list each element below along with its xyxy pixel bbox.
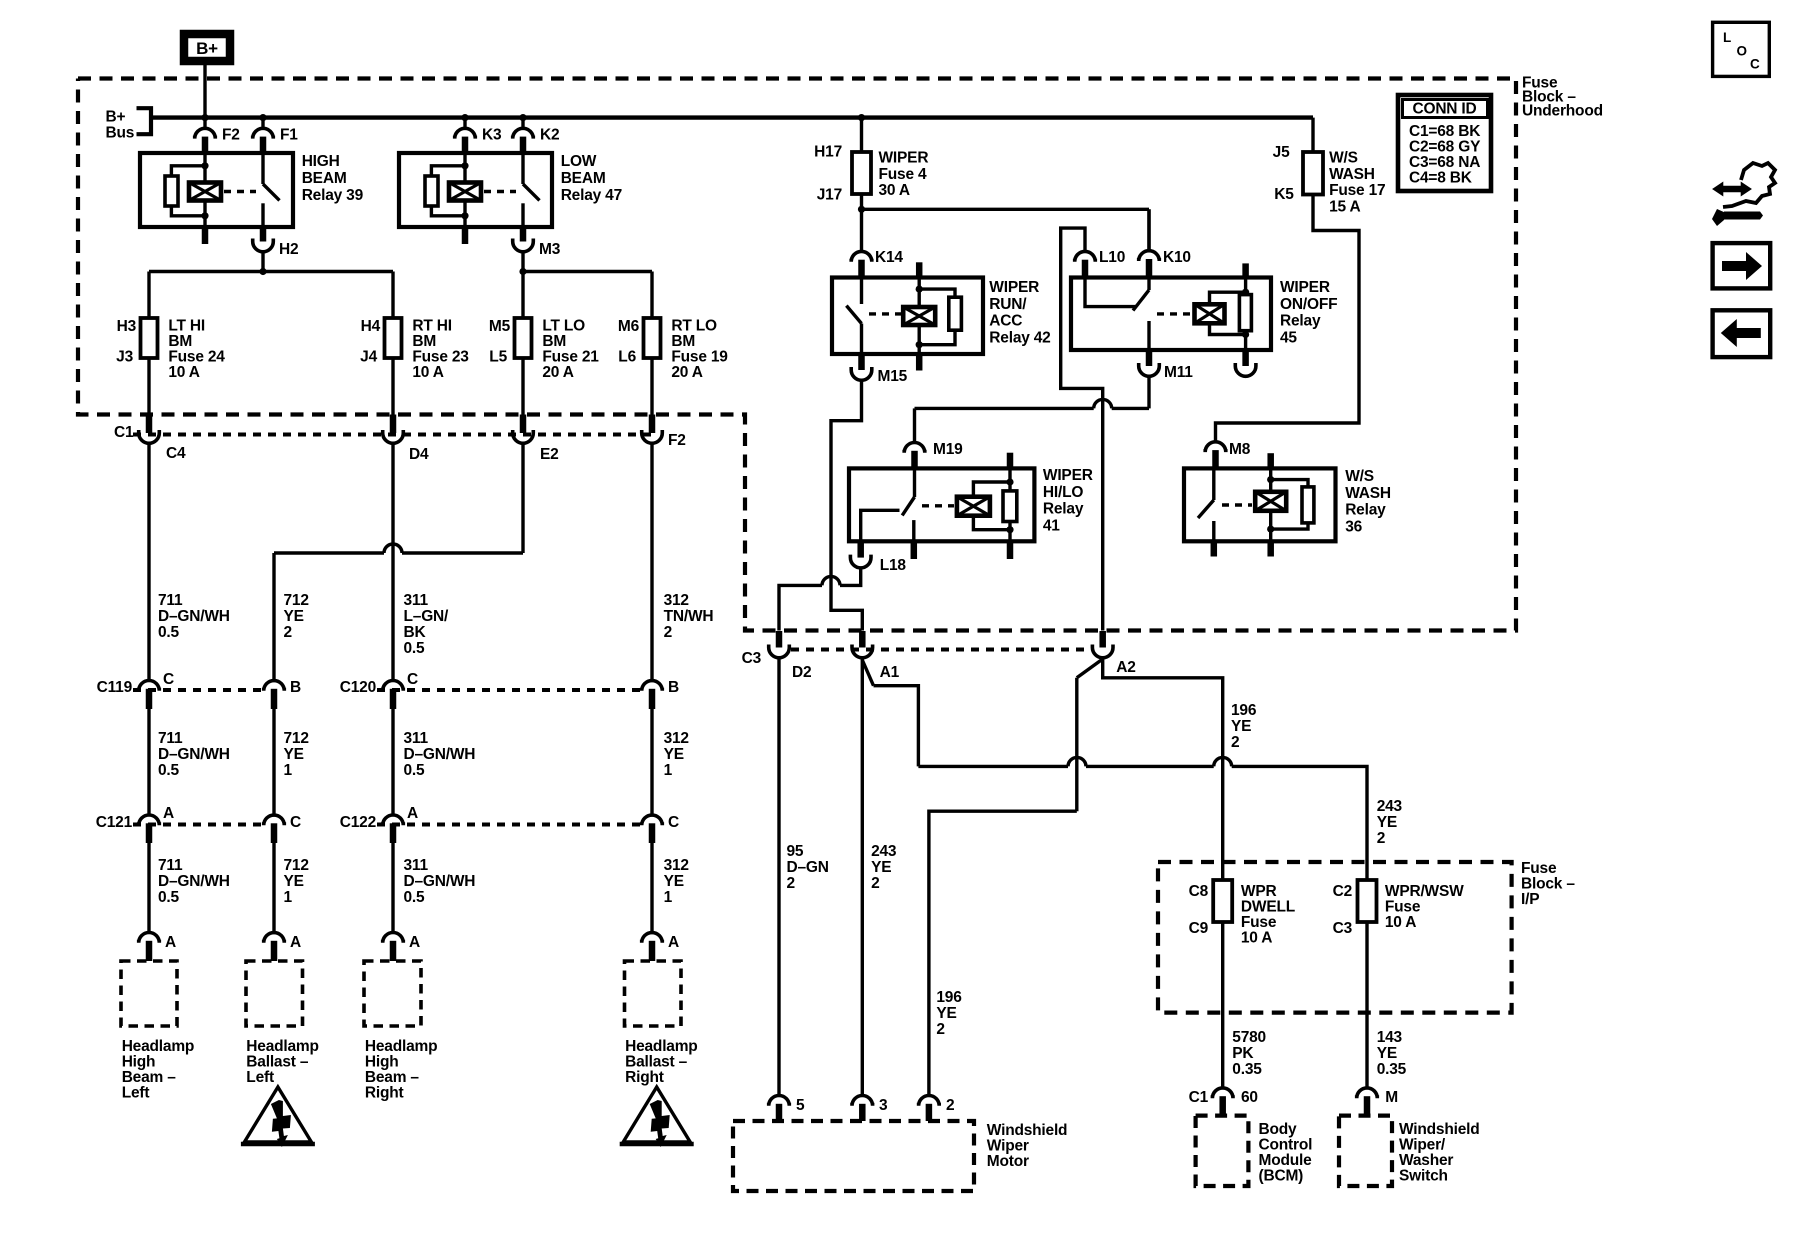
svg-text:Fuse 17: Fuse 17 [1329, 182, 1385, 199]
component Headlamp Ballast - Right [625, 961, 698, 1086]
svg-text:2: 2 [871, 875, 879, 892]
svg-text:HI/LO: HI/LO [1043, 484, 1083, 501]
svg-text:HIGH: HIGH [302, 153, 340, 170]
svg-text:WIPER: WIPER [879, 150, 929, 167]
svg-text:LT HI: LT HI [168, 318, 205, 335]
svg-text:311: 311 [404, 592, 429, 609]
svg-text:Fuse 23: Fuse 23 [412, 349, 469, 366]
fuse block underhood dashed outline [78, 79, 1516, 631]
svg-text:0.5: 0.5 [158, 889, 180, 906]
connector switch pin M [1357, 1088, 1398, 1116]
svg-text:K3: K3 [482, 127, 502, 144]
connector M3 [513, 227, 561, 258]
svg-text:O: O [1737, 44, 1747, 59]
svg-text:Relay: Relay [1345, 502, 1386, 519]
wire A2 to WPR DWELL fuse 196 YE [1103, 658, 1257, 880]
svg-text:C1: C1 [114, 424, 134, 441]
svg-text:Relay 47: Relay 47 [561, 187, 622, 204]
connector M11 [1139, 350, 1194, 381]
wire M3 to fuses Fuse21 Fuse19 [519, 253, 652, 319]
wire L18 to D2 [779, 569, 861, 631]
svg-text:M3: M3 [539, 241, 561, 258]
svg-text:0.35: 0.35 [1232, 1061, 1262, 1078]
svg-text:712: 712 [284, 857, 309, 874]
svg-text:41: 41 [1043, 517, 1060, 534]
svg-text:95: 95 [787, 843, 804, 860]
svg-text:YE: YE [664, 746, 684, 763]
wires fuses to connector C4 [149, 358, 652, 415]
svg-text:B: B [668, 679, 679, 696]
svg-text:DWELL: DWELL [1241, 899, 1295, 916]
svg-text:Fuse 21: Fuse 21 [542, 349, 599, 366]
svg-text:Wiper: Wiper [987, 1138, 1029, 1155]
svg-text:C9: C9 [1189, 920, 1209, 937]
fuse F19 RT LO BM Fuse 19 20A [618, 318, 728, 382]
svg-text:L10: L10 [1099, 249, 1125, 266]
connector pin A headlamp ballast left [264, 933, 301, 961]
svg-text:RUN/: RUN/ [989, 296, 1027, 313]
svg-text:RT LO: RT LO [671, 318, 717, 335]
svg-text:A: A [165, 934, 176, 951]
component Headlamp High Beam - Left [121, 961, 194, 1102]
wire 711 segment 2 [149, 709, 230, 815]
connector C122 [340, 805, 679, 843]
svg-text:C8: C8 [1189, 883, 1209, 900]
svg-text:BEAM: BEAM [302, 170, 347, 187]
svg-text:W/S: W/S [1345, 468, 1374, 485]
svg-text:20 A: 20 A [671, 364, 702, 381]
svg-text:2: 2 [1231, 734, 1239, 751]
svg-text:5780: 5780 [1232, 1029, 1266, 1046]
svg-text:C: C [407, 671, 418, 688]
svg-text:C3: C3 [1333, 920, 1353, 937]
wire A2 branch to wiper motor pin 2 196 YE [929, 659, 1103, 1096]
svg-text:TN/WH: TN/WH [664, 608, 714, 625]
svg-text:Fuse: Fuse [1241, 914, 1277, 931]
svg-text:Beam –: Beam – [122, 1069, 177, 1086]
svg-text:YE: YE [284, 608, 304, 625]
icon arrow left box [1713, 310, 1771, 357]
svg-text:E2: E2 [540, 446, 559, 463]
svg-text:D2: D2 [792, 664, 811, 681]
component Headlamp Ballast - Left [246, 961, 319, 1086]
svg-text:C121: C121 [96, 814, 133, 831]
svg-text:36: 36 [1345, 518, 1362, 535]
fuse F17 W/S WASH Fuse 17 15A [1273, 118, 1386, 216]
svg-text:Right: Right [365, 1085, 404, 1102]
svg-text:C: C [1750, 57, 1760, 72]
connector C3 pin D2 [742, 631, 812, 681]
wire M11 to M19 [915, 377, 1150, 443]
icon arrow right box [1713, 243, 1771, 288]
svg-text:Bus: Bus [106, 125, 135, 142]
svg-text:M8: M8 [1229, 441, 1251, 458]
svg-text:2: 2 [284, 624, 292, 641]
svg-text:H3: H3 [117, 318, 137, 335]
svg-text:L–GN/: L–GN/ [404, 608, 450, 625]
connector L18 [850, 541, 906, 574]
svg-text:Headlamp: Headlamp [122, 1038, 194, 1055]
svg-text:Wiper/: Wiper/ [1399, 1137, 1446, 1154]
wire bus to Fuse4 [860, 118, 863, 152]
wire 711 segment 3 [149, 843, 230, 933]
svg-text:M5: M5 [489, 318, 511, 335]
svg-text:Fuse: Fuse [1385, 899, 1421, 916]
svg-text:ACC: ACC [989, 313, 1022, 330]
svg-text:712: 712 [284, 730, 309, 747]
connector pin A headlamp ballast right [642, 933, 679, 961]
svg-text:D–GN/WH: D–GN/WH [158, 608, 230, 625]
svg-text:C122: C122 [340, 814, 376, 831]
icon LOC box [1713, 22, 1770, 76]
svg-text:YE: YE [284, 746, 304, 763]
wire Fuse4 output node [858, 194, 1149, 251]
svg-text:WPR: WPR [1241, 883, 1277, 900]
connector M19 [904, 441, 963, 468]
svg-text:H17: H17 [814, 144, 842, 161]
svg-text:(BCM): (BCM) [1259, 1168, 1304, 1185]
svg-text:5: 5 [796, 1097, 805, 1114]
svg-text:Ballast –: Ballast – [246, 1054, 309, 1071]
svg-text:W/S: W/S [1329, 150, 1358, 167]
svg-text:ON/OFF: ON/OFF [1280, 296, 1337, 313]
wire B+ bus [151, 115, 1313, 119]
svg-text:M: M [1385, 1089, 1398, 1106]
svg-text:312: 312 [664, 730, 689, 747]
svg-text:711: 711 [158, 730, 183, 747]
svg-text:D–GN: D–GN [787, 859, 829, 876]
svg-text:C4=8 BK: C4=8 BK [1409, 170, 1473, 187]
connector C3 pin A1 [852, 631, 900, 681]
svg-text:D–GN/WH: D–GN/WH [158, 873, 230, 890]
svg-text:1: 1 [284, 762, 293, 779]
svg-text:Headlamp: Headlamp [246, 1038, 318, 1055]
svg-text:BM: BM [671, 333, 695, 350]
svg-text:2: 2 [946, 1097, 954, 1114]
svg-text:YE: YE [1377, 814, 1397, 831]
connector pin A headlamp high beam left [139, 933, 176, 961]
svg-text:BM: BM [168, 333, 192, 350]
fuse block I/P dashed outline [1158, 862, 1512, 1013]
svg-text:D4: D4 [409, 446, 429, 463]
svg-text:Left: Left [122, 1085, 150, 1102]
wire 712 circuit segment 1 [274, 445, 523, 681]
svg-text:C120: C120 [340, 679, 376, 696]
wire B+ to bus [203, 65, 206, 118]
svg-text:Headlamp: Headlamp [625, 1038, 697, 1055]
svg-text:711: 711 [158, 592, 183, 609]
svg-text:712: 712 [284, 592, 309, 609]
svg-text:WPR/WSW: WPR/WSW [1385, 883, 1464, 900]
svg-text:J5: J5 [1273, 144, 1290, 161]
svg-text:K5: K5 [1274, 186, 1294, 203]
svg-text:10 A: 10 A [168, 364, 199, 381]
wire D2 to wiper motor pin 5 [779, 658, 829, 1095]
svg-text:B+: B+ [106, 109, 126, 126]
connector pin A headlamp high beam right [383, 932, 420, 961]
svg-text:C: C [163, 671, 174, 688]
svg-text:H4: H4 [361, 318, 381, 335]
svg-text:10 A: 10 A [1241, 930, 1272, 947]
svg-text:H2: H2 [279, 241, 298, 258]
svg-text:0.5: 0.5 [158, 762, 180, 779]
svg-text:BK: BK [404, 624, 427, 641]
svg-text:Washer: Washer [1399, 1152, 1453, 1169]
svg-text:0.5: 0.5 [158, 624, 180, 641]
svg-text:Fuse 4: Fuse 4 [879, 166, 927, 183]
svg-text:L5: L5 [489, 349, 507, 366]
svg-text:C: C [290, 814, 301, 831]
component Windshield Wiper/Washer Switch [1339, 1116, 1480, 1186]
svg-text:C: C [668, 814, 679, 831]
svg-text:243: 243 [871, 843, 897, 860]
connector C119 [97, 671, 301, 709]
svg-text:0.5: 0.5 [404, 762, 426, 779]
svg-text:C3=68 NA: C3=68 NA [1409, 154, 1480, 171]
svg-text:D–GN/WH: D–GN/WH [404, 873, 476, 890]
connector relay45 coil pin unused [1235, 363, 1256, 376]
svg-text:Beam –: Beam – [365, 1069, 420, 1086]
component Windshield Wiper Motor [733, 1121, 1067, 1191]
node B+ Bus bracket [106, 108, 152, 141]
wire 712 segment 2 [274, 709, 309, 815]
svg-text:Right: Right [625, 1069, 664, 1086]
svg-text:0.35: 0.35 [1377, 1061, 1407, 1078]
svg-text:Fuse 24: Fuse 24 [168, 349, 225, 366]
svg-text:Windshield: Windshield [987, 1122, 1068, 1139]
connector K10 [1139, 209, 1191, 277]
svg-text:10 A: 10 A [412, 364, 443, 381]
svg-text:A: A [163, 805, 174, 822]
svg-text:3: 3 [879, 1097, 888, 1114]
warning triangle ballast right [620, 1087, 694, 1147]
svg-text:A: A [409, 934, 420, 951]
fuse F4 WIPER Fuse 4 30A [814, 144, 928, 204]
relay U45 WIPER ON/OFF Relay 45 [1071, 263, 1337, 366]
svg-text:C1: C1 [1189, 1089, 1209, 1106]
connector K3 [455, 118, 502, 153]
svg-text:45: 45 [1280, 329, 1297, 346]
svg-text:A: A [290, 934, 301, 951]
connector H2 [253, 227, 299, 258]
wire M15 to A1 [831, 381, 862, 631]
svg-text:Ballast –: Ballast – [625, 1054, 688, 1071]
fuse F21 LT LO BM Fuse 21 20A [489, 318, 599, 382]
svg-text:D–GN/WH: D–GN/WH [158, 746, 230, 763]
svg-text:D–GN/WH: D–GN/WH [404, 746, 476, 763]
wire 712 segment 3 [274, 843, 309, 933]
svg-text:PK: PK [1232, 1045, 1254, 1062]
svg-text:K10: K10 [1163, 249, 1191, 266]
svg-text:BM: BM [542, 333, 566, 350]
svg-text:711: 711 [158, 857, 183, 874]
svg-text:Block –: Block – [1521, 876, 1575, 893]
connector pin F2 [642, 415, 686, 450]
connector K2 [513, 118, 560, 153]
svg-text:CONN ID: CONN ID [1412, 101, 1476, 118]
svg-text:2: 2 [787, 875, 795, 892]
connector pin D4 [383, 415, 429, 464]
svg-text:312: 312 [664, 857, 689, 874]
svg-text:L6: L6 [618, 349, 636, 366]
svg-text:L18: L18 [880, 557, 907, 574]
svg-text:F2: F2 [668, 432, 686, 449]
svg-text:Fuse 19: Fuse 19 [671, 349, 728, 366]
svg-text:2: 2 [664, 624, 672, 641]
wire 312 segment 2 [652, 709, 689, 815]
svg-text:311: 311 [404, 857, 429, 874]
svg-text:311: 311 [404, 730, 429, 747]
svg-text:F1: F1 [280, 127, 298, 144]
relay U42 WIPER RUN/ACC Relay 42 [832, 262, 1051, 370]
power symbol B+ [184, 34, 230, 61]
svg-text:Relay 42: Relay 42 [989, 329, 1050, 346]
svg-text:0.5: 0.5 [404, 889, 426, 906]
svg-text:F2: F2 [222, 127, 240, 144]
svg-text:YE: YE [936, 1005, 956, 1022]
svg-text:WASH: WASH [1345, 485, 1391, 502]
svg-text:196: 196 [936, 989, 962, 1006]
wire WPR DWELL fuse to BCM 5780 PK [1223, 922, 1266, 1088]
svg-text:C2: C2 [1333, 883, 1352, 900]
table CONN ID [1398, 95, 1491, 191]
svg-text:60: 60 [1241, 1089, 1258, 1106]
svg-text:A: A [407, 805, 418, 822]
svg-text:Body: Body [1259, 1121, 1298, 1138]
svg-text:2: 2 [936, 1021, 944, 1038]
svg-text:YE: YE [1377, 1045, 1397, 1062]
svg-text:BM: BM [412, 333, 436, 350]
wire 311 segment 3 [393, 843, 475, 933]
svg-text:Motor: Motor [987, 1153, 1029, 1170]
svg-text:B+: B+ [196, 39, 218, 58]
svg-text:2: 2 [1377, 830, 1385, 847]
svg-text:30 A: 30 A [879, 182, 910, 199]
svg-text:M6: M6 [618, 318, 640, 335]
svg-text:C119: C119 [97, 679, 133, 696]
relay U36 W/S WASH Relay 36 [1184, 453, 1391, 556]
wire L10 feed [1061, 228, 1103, 630]
svg-text:WIPER: WIPER [1043, 467, 1093, 484]
svg-text:Module: Module [1259, 1152, 1313, 1169]
svg-text:C4: C4 [166, 445, 186, 462]
fuse F24 LT HI BM Fuse 24 10A [116, 318, 225, 382]
connector BCM pin 60 C1 [1189, 1088, 1258, 1116]
svg-text:C1=68 BK: C1=68 BK [1409, 123, 1481, 140]
svg-text:B: B [290, 679, 301, 696]
svg-text:YE: YE [1231, 718, 1251, 735]
connector C120 [340, 671, 679, 709]
wire 311 segment 2 [393, 709, 475, 815]
svg-text:WASH: WASH [1329, 166, 1375, 183]
connector C3 dotted line [791, 648, 1089, 652]
svg-text:Underhood: Underhood [1522, 103, 1603, 120]
wire 311 circuit segment 1 [393, 445, 449, 681]
fuse WPR DWELL Fuse 10A [1189, 880, 1295, 947]
connector wiper motor pin 2 [919, 1096, 955, 1122]
svg-text:C2=68 GY: C2=68 GY [1409, 139, 1481, 156]
svg-text:312: 312 [664, 592, 689, 609]
svg-text:J3: J3 [116, 349, 133, 366]
wire A1 to wiper motor pin 3 [862, 658, 897, 1095]
svg-text:0.5: 0.5 [404, 640, 426, 657]
svg-text:243: 243 [1377, 798, 1403, 815]
wire H2 to fuses H3 H4 [149, 253, 393, 319]
relay U39 HIGH BEAM Relay 39 [140, 153, 364, 244]
svg-text:Relay: Relay [1043, 501, 1084, 518]
svg-text:Relay 39: Relay 39 [302, 187, 364, 204]
connector F1 [253, 118, 299, 153]
connector K14 [851, 209, 903, 277]
label Fuse Block - I/P [1521, 860, 1575, 908]
svg-text:143: 143 [1377, 1029, 1403, 1046]
svg-text:10 A: 10 A [1385, 914, 1416, 931]
svg-text:Windshield: Windshield [1399, 1121, 1480, 1138]
wire WPR/WSW fuse to switch 143 YE [1367, 922, 1407, 1088]
connector C121 [96, 805, 301, 843]
svg-text:WIPER: WIPER [989, 279, 1039, 296]
svg-text:LT LO: LT LO [542, 318, 585, 335]
svg-text:Headlamp: Headlamp [365, 1038, 437, 1055]
connector C1 C4 dotted line [133, 433, 652, 437]
connector wiper motor pin 5 [769, 1096, 805, 1122]
component Headlamp High Beam - Right [364, 961, 437, 1102]
svg-text:Left: Left [246, 1069, 274, 1086]
svg-text:A2: A2 [1116, 659, 1135, 676]
svg-text:L: L [1723, 30, 1731, 45]
label Fuse Block - Underhood [1522, 75, 1603, 120]
svg-text:A1: A1 [880, 664, 900, 681]
connector F2 [195, 118, 240, 153]
svg-text:1: 1 [284, 889, 293, 906]
svg-text:J17: J17 [817, 187, 842, 204]
svg-text:YE: YE [871, 859, 891, 876]
svg-text:A: A [668, 934, 679, 951]
connector pin E2 [513, 415, 559, 464]
svg-text:K2: K2 [540, 127, 559, 144]
connector L10 [1075, 249, 1125, 278]
svg-text:Relay: Relay [1280, 313, 1321, 330]
svg-text:20 A: 20 A [542, 364, 573, 381]
svg-text:RT HI: RT HI [412, 318, 451, 335]
icon navigation scribble [1712, 163, 1775, 226]
svg-text:LOW: LOW [561, 153, 597, 170]
svg-text:BEAM: BEAM [561, 170, 606, 187]
component Body Control Module BCM [1196, 1116, 1313, 1186]
warning triangle ballast left [241, 1087, 315, 1147]
svg-text:1: 1 [664, 889, 673, 906]
svg-text:M19: M19 [933, 441, 963, 458]
svg-text:1: 1 [664, 762, 673, 779]
svg-text:Fuse: Fuse [1521, 860, 1557, 877]
connector C3 pin A2 [1092, 631, 1135, 676]
relay U47 LOW BEAM Relay 47 [399, 153, 622, 244]
svg-text:I/P: I/P [1521, 891, 1539, 908]
wire Fuse17 to M8 [1216, 195, 1360, 442]
svg-text:High: High [122, 1054, 156, 1071]
svg-text:C3: C3 [742, 650, 762, 667]
connector pin C4 [114, 415, 186, 463]
fuse F23 RT HI BM Fuse 23 10A [360, 318, 469, 382]
svg-text:YE: YE [284, 873, 304, 890]
fuse WPR/WSW Fuse 10A [1333, 880, 1465, 937]
wire 243 A1 branch to WPR/WSW fuse [862, 660, 1402, 880]
svg-text:J4: J4 [360, 349, 377, 366]
svg-text:Control: Control [1259, 1137, 1313, 1154]
svg-text:Switch: Switch [1399, 1168, 1448, 1185]
svg-text:196: 196 [1231, 702, 1257, 719]
connector M15 [851, 354, 907, 385]
